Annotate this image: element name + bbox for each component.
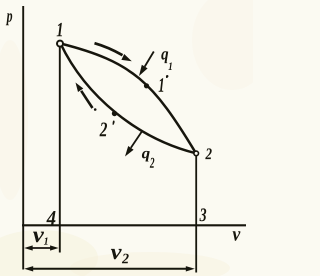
v1 subscript 1 [44,238,48,245]
wire: vertical line from node 2 down to node 3 [195,156,197,273]
node 1 open circle [57,41,63,47]
lower curve: process 1 to 2 through 2' [61,44,197,154]
node 2 label [205,148,211,159]
node 1' label [159,78,164,91]
q1 subscript 1 [168,63,171,71]
node 2' prime mark [113,121,115,126]
p axis label [6,13,12,25]
node 4 label [46,211,55,225]
dimension line v2 with arrowheads [31,268,188,270]
node 2' label [100,123,108,137]
node 2' dot [112,111,117,116]
heat input arrow q1 [145,52,154,67]
v1 label [33,232,44,243]
wire: vertical line from node 1 down to node 4 [59,46,61,253]
node 1' prime mark [166,75,169,78]
v axis label [233,231,241,241]
v2 subscript 2 [122,254,129,264]
q1 label [161,51,168,63]
v2 label [111,249,122,259]
y-axis (p axis), continues down to v2 dimension line [22,6,24,270]
x-axis (v axis) [22,224,246,226]
heat rejection arrow q2 [131,132,142,148]
q2 label [142,151,150,162]
faint scan tint patches [0,230,98,276]
direction arrow along lower curve [81,91,92,108]
node 1 label [57,23,62,36]
node 1' dot [144,83,149,88]
node 3 label [200,208,207,221]
dimension line v1 with arrowheads [30,247,52,249]
node 2 open circle [194,151,199,156]
direction arrow along upper curve [95,43,123,55]
speck dot near lower arrow tail [94,108,97,111]
q2 subscript 2 [150,158,155,168]
upper curve: process 1 to 2 through 1' [61,44,197,154]
